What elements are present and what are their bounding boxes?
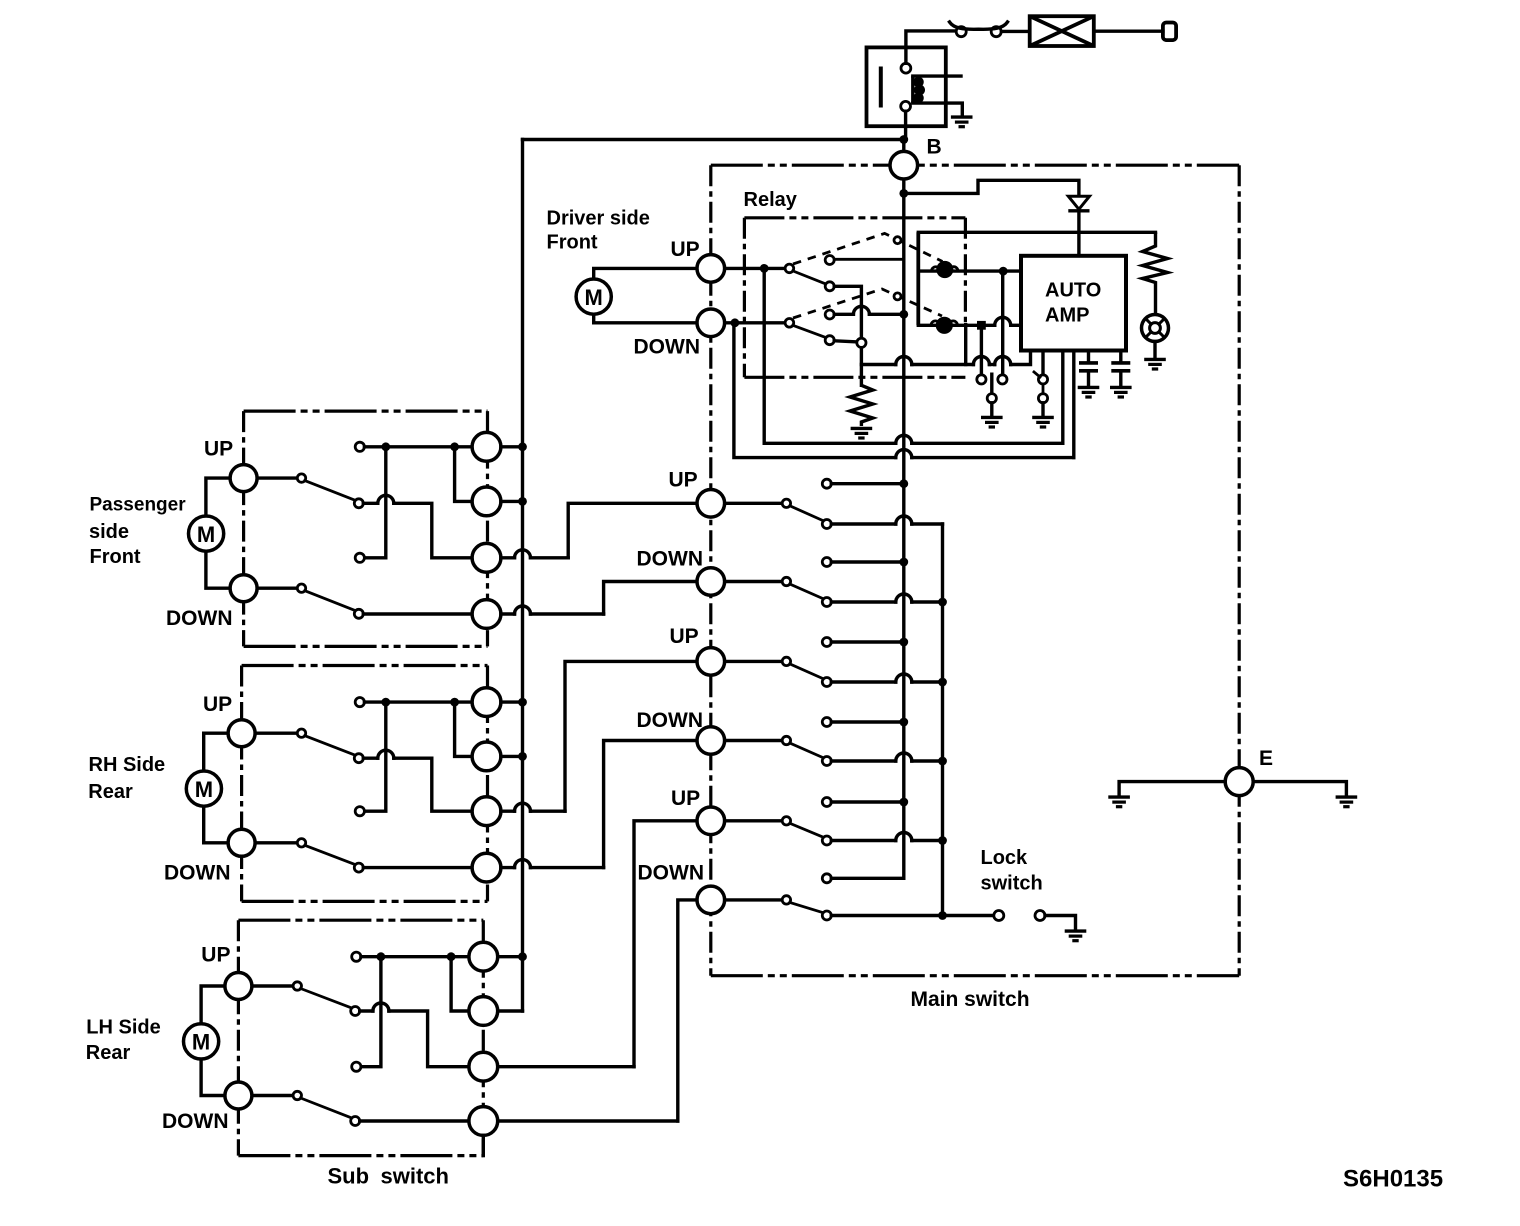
down switch contact <box>351 1117 360 1126</box>
wire left supply vertical <box>521 140 524 1012</box>
svg-text:DOWN: DOWN <box>634 336 701 359</box>
wire motor to UP terminal <box>204 733 229 771</box>
row4 pivot contact <box>782 736 790 744</box>
common top contact <box>355 698 364 707</box>
up switch contact <box>354 754 363 763</box>
row5 blade <box>790 823 824 837</box>
svg-text:UP: UP <box>671 238 700 261</box>
wire UP terminal to switch1 pivot <box>725 267 786 270</box>
row3 lower contact <box>822 678 831 687</box>
armature circle 2 <box>894 293 901 300</box>
wire row2 lower contact to right bus with hop <box>831 600 896 603</box>
circle contact c4 <box>472 600 501 629</box>
wire E right to ground <box>1253 782 1346 795</box>
capacitor C1 <box>1087 351 1090 362</box>
wire UP terminal to pivot <box>255 732 297 735</box>
down switch blade <box>301 1098 352 1118</box>
DOWN terminal driver <box>697 309 725 337</box>
wire c2 to supply <box>501 500 523 503</box>
wire row5 upper contact to main vertical <box>831 800 904 803</box>
junction row3 upper on main vertical <box>899 638 908 647</box>
wire coil2 bottom drop <box>964 325 967 365</box>
ground under breaker coil <box>951 117 973 127</box>
RH rear block dash-dot box <box>242 664 488 667</box>
row5 pivot contact <box>782 817 790 825</box>
wire common to ground <box>990 403 993 415</box>
wire row6 terminal to pivot <box>725 898 783 901</box>
fusible link <box>1030 16 1094 46</box>
ground select switch <box>981 417 1003 427</box>
wire row2 DOWN feed <box>604 582 697 615</box>
wire main vertical bus from B <box>902 140 905 879</box>
armature circle 1 <box>894 237 901 244</box>
row5 terminal <box>697 807 725 835</box>
row3 terminal <box>697 648 725 676</box>
svg-text:M: M <box>192 1030 210 1055</box>
junction row6 lower on right bus <box>938 911 947 920</box>
wire motor to UP terminal <box>206 478 230 516</box>
svg-text:Relay: Relay <box>744 189 798 211</box>
passenger DOWN terminal <box>230 575 257 602</box>
circuit breaker bottom contact <box>901 101 911 111</box>
wire breaker top to ignition switch <box>906 31 956 63</box>
relay select switch contact A <box>977 375 986 384</box>
up switch blade <box>305 736 356 756</box>
circle contact c4 <box>472 853 501 882</box>
node B <box>890 151 918 179</box>
wire up contact to c3 with hop <box>363 502 378 505</box>
ground C2 <box>1110 387 1132 397</box>
motor M driver front <box>576 279 611 314</box>
relay select switch common <box>987 394 996 403</box>
common top contact <box>355 442 364 451</box>
vertical to c2 <box>455 702 473 756</box>
passenger UP terminal <box>230 465 257 492</box>
junction row4 upper on main vertical <box>899 718 908 727</box>
wire motor to DOWN terminal <box>204 806 229 843</box>
wire switch2 NO to resistor line <box>834 341 859 342</box>
wire c2 to supply end <box>498 1009 523 1012</box>
wire to AUTO AMP bottom pin with hops <box>861 363 895 366</box>
junction row2 lower on right bus <box>938 598 947 607</box>
AUTO AMP pin down long 2 <box>1072 351 1075 458</box>
wire row6 DOWN feed <box>678 900 697 1121</box>
row3 upper contact <box>822 638 831 647</box>
lock sense switch blade <box>1034 372 1040 377</box>
wire c3 out <box>498 1065 634 1068</box>
wire diode to AUTO AMP top <box>1077 211 1080 256</box>
circle contact c1 <box>472 688 501 717</box>
ground left of E <box>1108 797 1130 807</box>
row6 upper contact <box>822 874 831 883</box>
junction row4 lower on right bus <box>938 757 947 766</box>
up switch contact <box>354 499 363 508</box>
down switch pivot <box>297 584 305 592</box>
wire UP drop to amp wire <box>764 268 896 443</box>
battery terminal <box>1163 23 1176 41</box>
svg-text:DOWN: DOWN <box>637 709 704 732</box>
relay coil 1 wire <box>918 269 1021 272</box>
relay coil 2 <box>936 317 953 334</box>
wire lock sense to ground <box>1041 403 1044 415</box>
wire row4 DOWN feed <box>604 741 697 868</box>
wire motor to DOWN terminal <box>201 1059 225 1096</box>
row2 pivot contact <box>782 577 790 585</box>
vertical common link <box>364 702 385 811</box>
row6 blade <box>790 902 824 912</box>
wire coil1 junction drop <box>1001 271 1004 375</box>
common mid contact <box>355 807 364 816</box>
svg-text:UP: UP <box>203 693 232 716</box>
wire DOWN terminal to pivot <box>252 1094 293 1097</box>
relay coil 2 wire with hop <box>918 324 994 327</box>
wire switch1 NO to resistor line <box>834 286 861 385</box>
svg-text:DOWN: DOWN <box>164 862 231 885</box>
circle contact c3 <box>469 1052 498 1081</box>
circle contact c3 <box>472 797 501 826</box>
svg-text:Front: Front <box>90 546 141 568</box>
row1 blade <box>790 506 824 521</box>
RH DOWN terminal <box>228 829 255 856</box>
lock switch contact left <box>994 911 1004 921</box>
relay switch2 NC contact <box>825 310 834 319</box>
wire c2 to supply <box>501 755 523 758</box>
wire step to diode <box>904 180 1079 196</box>
circuit breaker box <box>867 47 946 126</box>
wire motor to DOWN terminal <box>206 551 230 588</box>
up switch contact <box>351 1007 360 1016</box>
svg-text:B: B <box>927 136 942 159</box>
wire right bus vertical <box>941 524 944 916</box>
wire switch1 NC to bus <box>834 258 904 261</box>
up switch blade <box>301 989 352 1009</box>
ignition switch contact left <box>956 27 966 37</box>
diode D1 <box>1068 196 1089 209</box>
AUTO AMP box U1 <box>1021 256 1126 351</box>
wire row1 upper contact to main vertical <box>831 482 904 485</box>
row5 upper contact <box>822 798 831 807</box>
motor M passenger <box>189 516 224 551</box>
svg-text:switch: switch <box>981 873 1043 895</box>
row6 terminal <box>697 886 725 914</box>
down switch pivot <box>293 1091 301 1099</box>
motor M RH rear <box>186 771 221 806</box>
vertical common link <box>364 447 385 558</box>
junction on resistor line <box>857 338 866 347</box>
UP terminal driver <box>697 255 725 283</box>
svg-text:AMP: AMP <box>1045 305 1089 327</box>
ignition switch contact right <box>991 27 1001 37</box>
relay switch1 NC contact <box>825 256 834 265</box>
main switch dash-dot border <box>711 164 1239 167</box>
mech link dashed tent switch1 <box>793 233 943 264</box>
ground under R2 <box>851 428 873 438</box>
wire row1 UP feed <box>568 503 697 558</box>
relay dash-dot box <box>744 216 965 219</box>
wire down contact to c4 <box>363 866 472 869</box>
wire c1 to supply <box>498 955 523 958</box>
junction row5 upper on main vertical <box>899 798 908 807</box>
relay switch1 blade <box>793 271 827 284</box>
wire lock switch to ground <box>1045 916 1076 929</box>
svg-text:DOWN: DOWN <box>637 548 704 571</box>
passenger block dash-dot box <box>244 410 488 413</box>
wire DOWN drop to amp wire <box>734 323 896 458</box>
row1 pivot contact <box>782 499 790 507</box>
svg-text:M: M <box>585 285 603 310</box>
wire breaker bottom to node B <box>904 111 907 139</box>
relay switch2 blade <box>793 325 827 337</box>
ground lock switch <box>1065 931 1087 941</box>
down switch contact <box>354 863 363 872</box>
wire c4 out with hop <box>501 612 515 615</box>
up switch pivot <box>293 982 301 990</box>
lock sense switch top contact <box>1038 375 1047 384</box>
down switch blade <box>305 845 356 864</box>
lock sense switch lower contact <box>1038 394 1047 403</box>
AUTO AMP pin to lock sense switch <box>1041 351 1044 375</box>
row3 blade <box>790 664 824 679</box>
wire row3 UP feed <box>565 661 697 811</box>
relay switch2 pivot <box>785 319 794 328</box>
row4 upper contact <box>822 718 831 727</box>
junction row1 upper on main vertical <box>899 479 908 488</box>
mech link dash-dot vertical <box>964 218 967 325</box>
common top contact <box>352 952 361 961</box>
svg-text:Rear: Rear <box>88 781 133 803</box>
coil frame left edge <box>916 232 920 325</box>
ground lock sense <box>1032 417 1054 427</box>
row2 lower contact <box>822 598 831 607</box>
RH UP terminal <box>228 720 255 747</box>
wire UP terminal to pivot <box>252 984 293 987</box>
common mid contact <box>352 1062 361 1071</box>
wire row4 terminal to pivot <box>725 739 783 742</box>
wire c1 to supply <box>501 700 523 703</box>
wire UP terminal to pivot <box>257 476 297 479</box>
svg-text:UP: UP <box>201 943 230 966</box>
row5 lower contact <box>822 836 831 845</box>
row4 terminal <box>697 727 725 755</box>
svg-text:Front: Front <box>547 231 598 253</box>
row3 pivot contact <box>782 657 790 665</box>
row2 blade <box>790 584 824 599</box>
wire top contact to c1 <box>364 445 472 448</box>
wire row1 terminal to pivot <box>725 502 783 505</box>
junction B to diode branch <box>899 189 908 198</box>
wire DOWN terminal to pivot <box>255 841 297 844</box>
wire row5 UP feed <box>634 821 697 1067</box>
circle contact c2 <box>472 487 501 516</box>
vertical common link <box>361 957 381 1067</box>
wire DOWN terminal to switch2 pivot <box>725 321 786 324</box>
vertical to c2 <box>451 957 469 1011</box>
junction row5 lower on right bus <box>938 836 947 845</box>
wire coil bottom lead <box>913 103 963 115</box>
svg-text:UP: UP <box>669 469 698 492</box>
svg-text:Sub: Sub <box>328 1164 370 1189</box>
ground C1 <box>1078 387 1100 397</box>
junction row2 upper on main vertical <box>899 558 908 567</box>
junction coil2 wire <box>977 321 986 330</box>
relay switch2 NO contact <box>825 336 834 345</box>
circle contact c1 <box>469 942 498 971</box>
svg-text:Main switch: Main switch <box>911 988 1030 1011</box>
relay switch1 pivot <box>785 264 794 273</box>
common mid contact <box>355 553 364 562</box>
vertical to c2 <box>455 447 473 502</box>
wire c3 out with hop <box>501 556 515 559</box>
row1 terminal <box>697 490 725 518</box>
wire row3 terminal to pivot <box>725 660 783 663</box>
svg-text:DOWN: DOWN <box>162 1110 229 1133</box>
down switch blade <box>305 591 356 611</box>
relay select switch blade <box>990 374 993 393</box>
row4 lower contact <box>822 757 831 766</box>
wire row6 lower contact to lock switch <box>831 914 994 917</box>
svg-text:UP: UP <box>671 787 700 810</box>
svg-text:switch: switch <box>381 1164 449 1189</box>
row2 upper contact <box>822 558 831 567</box>
row2 terminal <box>697 568 725 596</box>
wire E left to ground <box>1119 782 1225 795</box>
wire top contact to c1 <box>361 955 469 958</box>
svg-text:UP: UP <box>204 437 233 460</box>
node E <box>1225 768 1253 796</box>
circle contact c3 <box>472 543 501 572</box>
svg-text:DOWN: DOWN <box>166 607 233 630</box>
lock switch contact right <box>1035 911 1045 921</box>
wire up contact to c3 with hop <box>363 757 378 760</box>
circuit breaker bimetal bar <box>879 67 883 108</box>
junction row3 lower on right bus <box>938 678 947 687</box>
svg-text:Lock: Lock <box>981 847 1029 869</box>
circle contact c2 <box>469 997 498 1026</box>
circle contact c1 <box>472 432 501 461</box>
junction on UP wire <box>760 264 769 273</box>
wire row4 lower contact to right bus with hop <box>831 759 896 762</box>
wire motor to UP terminal <box>594 268 697 279</box>
wire c3 out with hop <box>501 810 515 813</box>
wire c4 out with hop <box>501 866 515 869</box>
down switch pivot <box>297 839 305 847</box>
svg-text:Rear: Rear <box>86 1042 131 1064</box>
svg-text:DOWN: DOWN <box>638 862 705 885</box>
circuit breaker top contact <box>901 63 911 73</box>
capacitor C2 <box>1119 351 1122 362</box>
row6 pivot contact <box>782 896 790 904</box>
wire row6 upper contact to main vertical end <box>831 877 904 880</box>
junction coil1 wire <box>999 267 1008 276</box>
resistor R2 <box>850 385 873 426</box>
wire down contact to c4 <box>363 612 472 615</box>
circle contact c4 <box>469 1107 498 1136</box>
wire top feed horizontal <box>523 138 904 141</box>
wire sensor to ground <box>1153 342 1156 358</box>
coil frame top edge to resistor <box>918 231 1155 234</box>
wire top contact to c1 <box>364 700 472 703</box>
circuit breaker coil <box>911 76 914 103</box>
svg-text:Passenger: Passenger <box>90 495 187 516</box>
up switch pivot <box>297 729 305 737</box>
svg-text:LH Side: LH Side <box>86 1016 160 1038</box>
junction on DOWN wire <box>731 318 740 327</box>
junction above B <box>899 135 908 144</box>
svg-text:AUTO: AUTO <box>1045 280 1101 302</box>
wire row3 lower contact to right bus with hop <box>831 680 896 683</box>
svg-text:Driver side: Driver side <box>547 208 650 230</box>
svg-text:E: E <box>1259 747 1273 770</box>
wire row1 lower contact to right bus with hop <box>831 522 896 525</box>
ground right of E <box>1336 797 1358 807</box>
motor M LH rear <box>184 1024 219 1059</box>
mech link dashed tent switch2 <box>793 289 942 318</box>
row1 upper contact <box>822 479 831 488</box>
resistor R1 <box>1143 232 1168 314</box>
up switch pivot <box>297 474 305 482</box>
sensor lamp component <box>1142 315 1169 342</box>
LH UP terminal <box>225 973 252 1000</box>
wire coil top lead <box>913 74 961 77</box>
wire coil2 junction drop <box>980 325 983 375</box>
LH rear block dash-dot box <box>238 919 483 922</box>
wire row5 lower contact to right bus with hop <box>831 839 896 842</box>
wire motor to DOWN terminal <box>594 314 697 323</box>
svg-text:M: M <box>195 777 213 802</box>
svg-text:side: side <box>89 521 129 543</box>
up switch blade <box>305 481 356 501</box>
wire c4 stub <box>482 1135 485 1155</box>
svg-text:UP: UP <box>670 625 699 648</box>
wire c1 to supply <box>501 445 523 448</box>
wire c4 out <box>498 1119 678 1122</box>
svg-text:RH Side: RH Side <box>89 754 166 776</box>
svg-text:M: M <box>197 522 215 547</box>
ignition switch blade <box>950 22 1008 29</box>
svg-text:S6H0135: S6H0135 <box>1343 1166 1443 1193</box>
row1 lower contact <box>822 520 831 529</box>
wire up contact to c3 with hop <box>360 1009 373 1012</box>
wire row3 upper contact to main vertical <box>831 640 904 643</box>
relay coil 1 <box>936 261 953 278</box>
row4 blade <box>790 743 824 758</box>
wire row2 upper contact to main vertical <box>831 560 904 563</box>
row6 lower contact <box>822 911 831 920</box>
relay switch1 NO contact <box>825 282 834 291</box>
wire DOWN terminal to pivot <box>257 587 297 590</box>
wire motor to UP terminal <box>201 986 225 1024</box>
wire switch2 NC to bus with hop <box>834 313 853 316</box>
down switch contact <box>354 609 363 618</box>
wire row2 terminal to pivot <box>725 580 783 583</box>
AUTO AMP pin down long 1 <box>1061 351 1064 444</box>
LH DOWN terminal <box>225 1082 252 1109</box>
ground sensor <box>1144 359 1166 369</box>
wire row5 terminal to pivot <box>725 819 783 822</box>
relay select switch contact B <box>998 375 1007 384</box>
wire down contact to c4 <box>360 1119 469 1122</box>
wire ignition switch to fusible link <box>1001 30 1029 33</box>
wire fusible link to battery terminal <box>1094 30 1163 33</box>
wire row4 upper contact to main vertical <box>831 720 904 723</box>
circle contact c2 <box>472 742 501 771</box>
